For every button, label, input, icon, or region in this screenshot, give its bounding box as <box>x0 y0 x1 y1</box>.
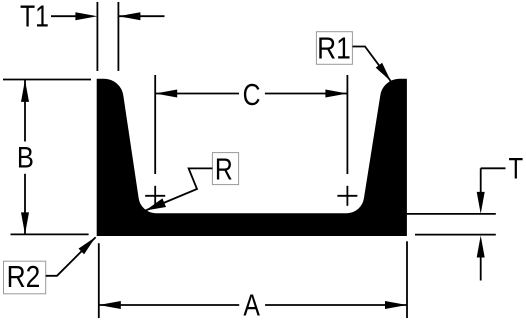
svg-text:R2: R2 <box>7 260 41 294</box>
svg-text:T1: T1 <box>20 0 49 33</box>
svg-text:T: T <box>508 151 523 185</box>
svg-text:A: A <box>243 288 260 322</box>
svg-text:B: B <box>17 141 34 174</box>
svg-text:C: C <box>243 77 261 111</box>
svg-text:R: R <box>215 152 233 186</box>
svg-text:R1: R1 <box>317 31 351 65</box>
